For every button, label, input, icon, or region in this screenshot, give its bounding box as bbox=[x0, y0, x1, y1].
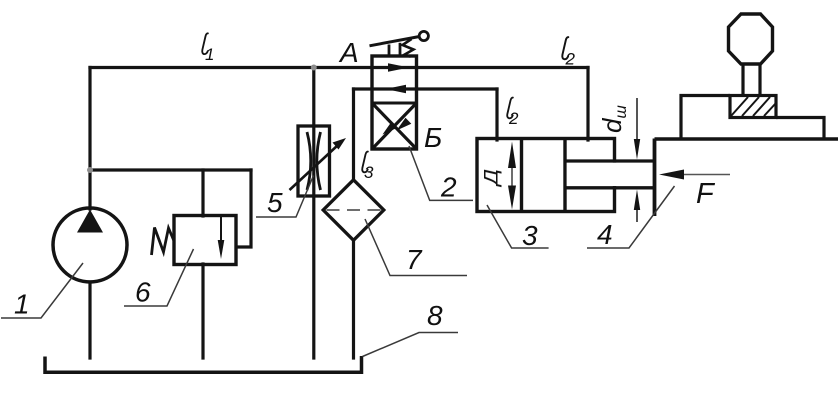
svg-text:2: 2 bbox=[565, 50, 576, 69]
force F arrow bbox=[659, 170, 730, 180]
machine table outline bbox=[681, 96, 730, 139]
leader label 3 bbox=[487, 205, 549, 251]
wire l3 drop to filter bbox=[352, 89, 355, 181]
wire relief valve pilot loop bbox=[237, 170, 251, 247]
wire throttle branch vertical through valve 5 down to tank bbox=[312, 68, 315, 359]
leader label 6 bbox=[124, 249, 194, 308]
leader label 8 bbox=[363, 300, 459, 357]
leader label 1 bbox=[1, 263, 83, 320]
directional valve 2 X arrowheads bbox=[383, 122, 398, 135]
load stop 4 plate bbox=[653, 139, 657, 217]
svg-text:2: 2 bbox=[508, 109, 519, 128]
dimension d_sh arrows bbox=[634, 98, 640, 222]
cylinder 3 rod top edge bbox=[565, 159, 655, 162]
svg-text:8: 8 bbox=[427, 300, 443, 331]
node junction dot pump riser/branch bbox=[87, 167, 93, 173]
relief valve 6 internal arrow bbox=[218, 217, 225, 259]
dimension label d_sh bbox=[597, 105, 630, 133]
directional valve 2 left-flow arrow on line B bbox=[386, 85, 407, 94]
grinding head octagon bbox=[729, 14, 773, 64]
svg-text:Б: Б bbox=[424, 122, 442, 153]
wire l2 left drop to cylinder left port bbox=[495, 89, 498, 140]
directional valve 2 lever posts bbox=[388, 45, 391, 57]
node junction dot l1/throttle bbox=[311, 65, 317, 71]
cylinder 3 piston left face bbox=[520, 139, 523, 212]
wire relief valve outlet to tank bbox=[201, 264, 204, 358]
wire pump outlet down to tank bbox=[88, 282, 91, 358]
wire left riser from pump to l1 bbox=[88, 68, 91, 210]
svg-text:6: 6 bbox=[135, 277, 151, 308]
wire line B horizontal through valve 2 bbox=[354, 87, 498, 90]
workpiece hatched block bbox=[730, 96, 776, 118]
grinding head stem bbox=[741, 64, 744, 96]
svg-text:3: 3 bbox=[522, 220, 538, 251]
pump 1 bbox=[53, 208, 127, 282]
throttle valve 5 adjustment arrow bbox=[290, 138, 347, 190]
pump 1 triangle bbox=[77, 210, 103, 233]
svg-text:F: F bbox=[696, 178, 716, 210]
throttle valve 5 body bbox=[298, 126, 330, 196]
node label l3 bbox=[362, 152, 374, 182]
wire relief valve feed drop bbox=[201, 170, 204, 216]
directional valve 2 position divider bbox=[372, 102, 417, 105]
relief valve 6 body bbox=[174, 216, 236, 265]
node label l2 middle bbox=[507, 98, 519, 128]
svg-text:1: 1 bbox=[205, 45, 214, 64]
directional valve 2 lever bbox=[370, 37, 420, 46]
svg-text:Д: Д bbox=[481, 169, 502, 187]
cylinder 3 rod bottom edge bbox=[565, 186, 655, 189]
machine base guideline bbox=[655, 137, 839, 140]
filter 7 diamond bbox=[323, 180, 384, 241]
cylinder 3 body bbox=[477, 139, 615, 212]
directional valve 2 right-flow arrow on line A bbox=[388, 63, 409, 72]
directional valve 2 return spring bbox=[403, 39, 414, 57]
cylinder 3 rod (erase wall) bbox=[567, 163, 655, 186]
leader label 4 bbox=[587, 186, 675, 250]
node label l1 bbox=[202, 33, 214, 64]
relief valve 6 spring bbox=[152, 228, 175, 256]
wire branch line at y=170 from pump riser to pilot corner bbox=[90, 168, 251, 171]
filter 7 dashed element line bbox=[327, 209, 381, 211]
leader label 2 bbox=[409, 146, 473, 203]
svg-text:5: 5 bbox=[267, 187, 283, 218]
svg-text:3: 3 bbox=[364, 163, 374, 182]
wire l2 right drop to cylinder right port bbox=[586, 68, 589, 141]
svg-text:1: 1 bbox=[14, 289, 30, 320]
svg-text:2: 2 bbox=[440, 172, 457, 203]
leader label 7 bbox=[365, 219, 467, 276]
svg-text:4: 4 bbox=[597, 219, 613, 250]
dimension Д arrow bbox=[508, 142, 516, 210]
directional valve 2 crossed position X bbox=[372, 103, 417, 149]
wire filter outlet to tank bbox=[352, 239, 355, 358]
throttle valve 5 venturi curves bbox=[307, 132, 321, 190]
directional valve 2 body bbox=[372, 56, 417, 149]
leader label 5 bbox=[256, 176, 314, 219]
tank 8 bbox=[45, 356, 362, 372]
wire l1 top supply line from pump riser through valve 2 to right drop bbox=[90, 66, 588, 69]
cylinder 3 piston right face bbox=[563, 139, 566, 212]
node label l2 right bbox=[562, 37, 575, 68]
svg-text:7: 7 bbox=[406, 244, 423, 275]
directional valve 2 lever knob bbox=[419, 31, 428, 40]
svg-text:A: A bbox=[338, 37, 359, 68]
